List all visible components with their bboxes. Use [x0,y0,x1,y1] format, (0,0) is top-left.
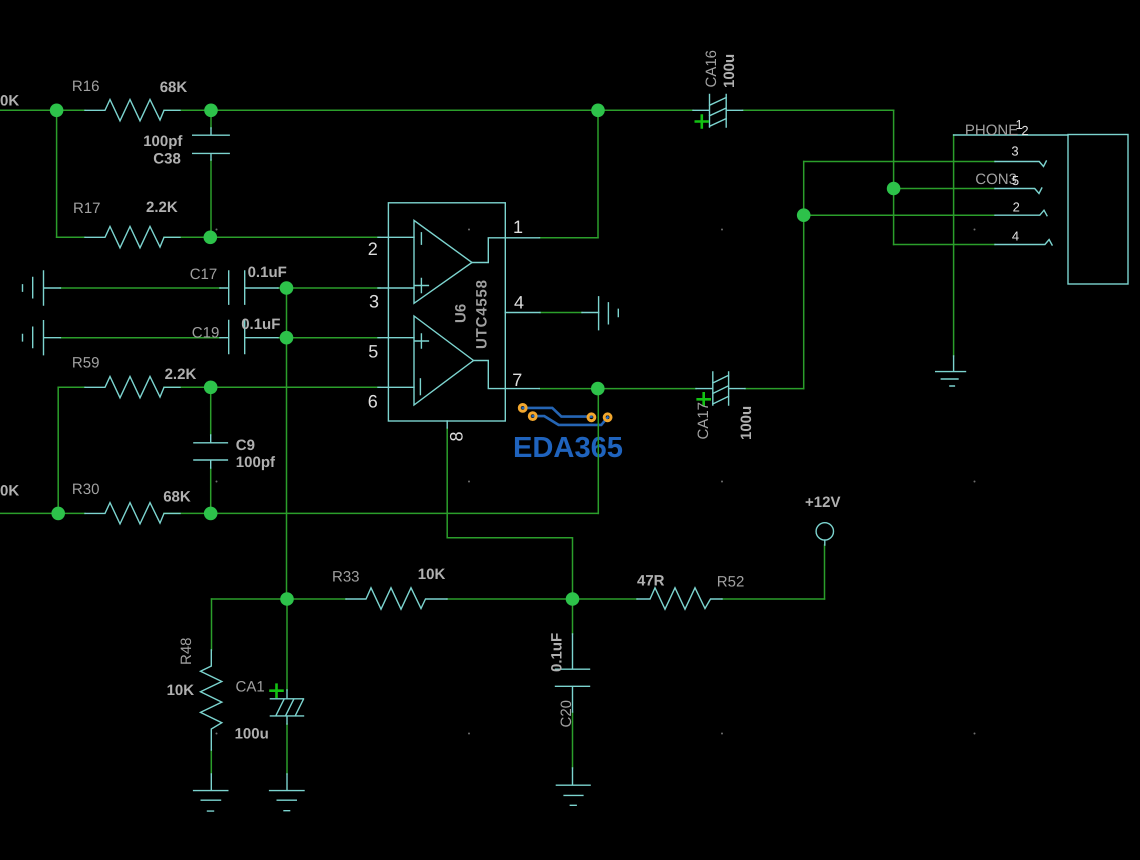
wire +12V branch [824,545,826,599]
svg-text:U6: U6 [453,304,470,323]
resistor R33 [346,588,447,609]
wire pin1 vertical [597,110,599,238]
svg-text:0.1uF: 0.1uF [241,316,280,333]
svg-text:R33: R33 [332,569,360,586]
wire R48 branch [210,599,212,774]
svg-text:2.2K: 2.2K [146,199,178,216]
capacitor CA16 plates [693,95,743,128]
svg-text:8: 8 [447,431,467,441]
resistor R30 [85,503,180,524]
op-amp A output path [472,238,540,263]
svg-text:4: 4 [514,293,524,313]
svg-text:100u: 100u [738,406,755,440]
connector pin5 stub [995,188,1042,194]
svg-text:1: 1 [513,217,523,237]
svg-text:5: 5 [368,342,378,362]
capacitor CA1 plates [270,690,303,724]
wire right channel vertical x=803.7 [803,162,805,389]
svg-text:CON3: CON3 [975,171,1017,188]
svg-text:CA16: CA16 [703,50,720,88]
capacitor CA17 plates [696,372,745,405]
op-amp triangle B [414,316,474,405]
svg-text:100pf: 100pf [236,454,276,471]
resistor R59 [85,377,180,398]
wire top row y=110.3 [0,109,894,111]
wire pin4 connector row [894,244,995,246]
svg-text:R17: R17 [73,200,101,217]
svg-text:4: 4 [1012,229,1019,244]
connector CON3 body [1068,135,1128,285]
svg-text:10K: 10K [167,682,195,699]
ground connector [936,356,966,386]
ground CA1 [270,774,304,811]
resistor R48 vertical [201,650,222,750]
op-amp pin4 stub [505,313,825,546]
svg-text:C20: C20 [558,700,575,728]
svg-text:100u: 100u [235,726,269,743]
svg-text:68K: 68K [163,489,191,506]
wire pin6/R59 row [58,386,380,388]
wire CA1 branch [286,599,288,774]
resistor 47R R52 [637,588,722,609]
svg-text:100u: 100u [721,54,738,88]
wire R30 row [0,512,598,514]
svg-text:100pf: 100pf [143,133,183,150]
input jack J2 [23,321,61,355]
svg-text:47R: 47R [637,573,665,590]
wire left channel vertical x=893.6 [893,110,895,244]
svg-text:CA1: CA1 [236,679,265,696]
svg-text:0K: 0K [0,93,19,110]
connector pin4 stub [995,240,1052,246]
capacitor C9 [194,435,228,468]
wire bias row y=599 [212,598,825,600]
wire C20 branch [572,599,574,768]
wire connector pin1 ground vertical [953,135,955,356]
svg-text:68K: 68K [160,79,188,96]
ground C20 [556,768,590,805]
resistor R17 [85,227,180,248]
connector pin2 stub [995,210,1047,216]
wire pin3 connector row [804,161,995,163]
wire pin1 row [540,237,599,239]
svg-text:2: 2 [368,239,378,259]
op-amp B output path [474,361,540,389]
op-amp B plus [414,334,428,348]
svg-text:+12V: +12V [805,494,840,511]
svg-text:C9: C9 [236,437,255,454]
ground R48 [194,774,228,811]
wire bias vertical x=286.5 [286,288,288,599]
svg-text:R59: R59 [72,355,100,372]
capacitor C17 [220,271,278,304]
resistor R16 [85,100,180,121]
op-amp A minus [420,233,422,244]
polarity plus CA16 [271,116,710,697]
wire R17 row [57,236,380,238]
svg-text:R52: R52 [717,574,745,591]
wire pin7 row [539,388,803,390]
wire pin4 row [540,312,582,314]
wire pin8 path [447,428,572,599]
wire C38 vertical [210,110,212,237]
green wires [0,110,995,774]
connector pin1 line [954,134,1068,136]
svg-text:0K: 0K [0,483,19,500]
connector pin3 stub [995,161,1046,167]
wire pin2 connector row [804,214,995,216]
svg-text:UTC4558: UTC4558 [474,279,491,349]
svg-text:C19: C19 [192,325,220,342]
op-amp U6 box [388,203,505,421]
op-amp pin8 stub [446,421,448,428]
wire pin5 connector row [894,188,995,190]
wire feedback vertical x=598.3 [597,389,599,514]
svg-text:7: 7 [512,370,522,390]
power port +12V circle [816,523,833,540]
svg-text:R48: R48 [178,637,195,665]
svg-text:0.1uF: 0.1uF [549,633,566,672]
svg-text:R16: R16 [72,78,100,95]
svg-text:0.1uF: 0.1uF [248,264,287,281]
svg-text:3: 3 [369,292,379,312]
svg-text:2.2K: 2.2K [165,366,197,383]
svg-text:3: 3 [1011,144,1018,159]
grid reference dots [216,229,976,735]
op-amp input pin stubs [378,237,414,387]
svg-text:10K: 10K [418,566,446,583]
svg-text:5: 5 [1012,173,1019,188]
wire C9 vertical [210,387,212,513]
wire R59 left vertical [57,387,59,513]
polarity plus CA17 [698,393,710,405]
svg-text:C17: C17 [190,266,218,283]
polarity plus CA1 [271,685,283,697]
svg-text:EDA365: EDA365 [513,432,623,464]
svg-text:2: 2 [1021,123,1028,138]
svg-text:PHONE: PHONE [965,122,1018,139]
op-amp B minus [419,379,421,395]
input jack J1 [23,271,61,305]
svg-text:2: 2 [1013,200,1020,215]
op-amp A plus [414,279,428,293]
capacitor C38 [193,128,230,160]
svg-text:CA17: CA17 [695,402,712,440]
svg-text:R30: R30 [72,481,100,498]
svg-text:6: 6 [368,391,378,411]
wire pin3 row [60,287,380,289]
wire pin5 row [60,337,380,339]
wire left vertical x=56.6 [56,110,58,237]
EDA365 watermark logo [513,405,623,465]
capacitor C19 [220,321,278,354]
ground pin4 (rotated) [599,297,619,330]
svg-text:C38: C38 [153,151,181,168]
op-amp triangle A [414,220,472,303]
capacitor C20 [556,634,590,712]
